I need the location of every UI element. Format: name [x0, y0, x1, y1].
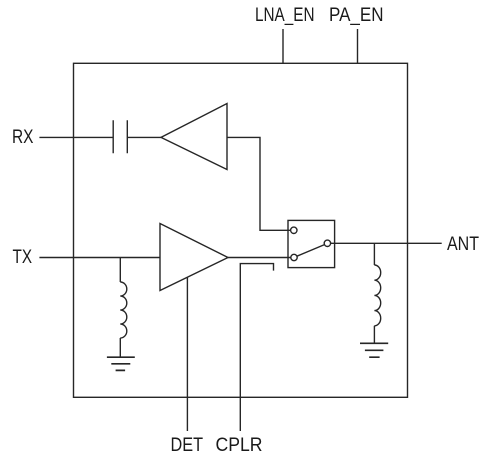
switch arm	[297, 245, 325, 257]
svg-text:TX: TX	[13, 247, 33, 268]
ground GND1	[107, 357, 135, 370]
wire LNA_EN pin	[282, 29, 284, 63]
capacitor C1 (RX DC block)	[113, 120, 127, 153]
ground GND2	[360, 343, 388, 357]
wire DET from PA	[186, 277, 188, 431]
switch SW1 body	[288, 220, 335, 267]
wire PA output to switch port 2	[228, 257, 291, 259]
wire PA_EN pin	[357, 29, 359, 63]
wire switch to ANT	[331, 242, 442, 244]
svg-text:PA_EN: PA_EN	[329, 5, 384, 26]
svg-text:CPLR: CPLR	[216, 435, 263, 456]
svg-text:DET: DET	[171, 435, 204, 456]
switch port 1 (from LNA)	[291, 227, 297, 233]
svg-text:ANT: ANT	[447, 234, 479, 255]
inductor L1 (TX shunt)	[119, 258, 121, 283]
chip outline U1	[74, 63, 408, 397]
wire capacitor to LNA input	[127, 136, 161, 138]
amplifier PA (triangle)	[160, 224, 228, 291]
switch common port (to ANT)	[324, 240, 330, 246]
amplifier LNA (triangle)	[161, 104, 227, 170]
wire TX to PA input	[39, 257, 160, 259]
wire RX to capacitor	[39, 136, 113, 138]
svg-text:RX: RX	[12, 127, 34, 148]
coupler CPLR (coupled line)	[240, 264, 273, 431]
wire LNA output to switch port 1	[227, 137, 291, 230]
inductor L2 (ANT shunt)	[373, 243, 375, 265]
switch port 2 (from PA)	[291, 254, 297, 260]
svg-text:LNA_EN: LNA_EN	[255, 5, 315, 26]
